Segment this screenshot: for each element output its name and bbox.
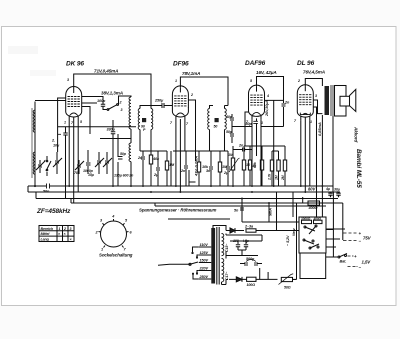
capacitor 250u bbox=[151, 99, 172, 109]
resistor 1M c bbox=[275, 151, 281, 186]
wire box to rails bbox=[326, 230, 333, 248]
capacitor 2n coupling bbox=[233, 144, 252, 152]
svg-text:15μ: 15μ bbox=[88, 173, 95, 177]
svg-text:2: 2 bbox=[63, 227, 66, 231]
wire column x118 bbox=[117, 134, 119, 186]
capacitor 500p pair bbox=[240, 257, 262, 266]
svg-text:71V,0,45mA: 71V,0,45mA bbox=[94, 69, 118, 74]
svg-text:3: 3 bbox=[121, 108, 123, 112]
speaker magnet bbox=[340, 96, 350, 106]
capacitor 50n series bbox=[43, 184, 50, 194]
wires T1 bbox=[140, 106, 151, 152]
svg-text:75V: 75V bbox=[363, 236, 372, 241]
svg-text:1,5V: 1,5V bbox=[362, 260, 372, 265]
wire row y151 mid bbox=[173, 150, 228, 152]
oscillator coil upper bbox=[129, 97, 131, 129]
socket pin numbers bbox=[95, 215, 133, 252]
terminal 75V plus bbox=[343, 231, 372, 241]
capacitor 1000p bbox=[83, 150, 95, 177]
wire column x290 bbox=[292, 192, 294, 217]
transformer taps bbox=[192, 243, 212, 279]
voltage selector arm bbox=[190, 262, 198, 264]
wire caps row bbox=[226, 241, 262, 259]
oscillator coil wires bbox=[119, 96, 132, 186]
svg-text:3: 3 bbox=[70, 227, 72, 231]
svg-text:Bambi ML-55: Bambi ML-55 bbox=[355, 149, 362, 188]
svg-text:100Ω: 100Ω bbox=[247, 283, 256, 287]
scan smudge bbox=[30, 70, 56, 76]
wire columns DAF96 bbox=[245, 100, 284, 186]
wire column x265 9mA bbox=[268, 203, 270, 222]
table frame bbox=[39, 226, 74, 242]
svg-text:40k: 40k bbox=[152, 157, 160, 161]
wire bottom row bbox=[222, 280, 229, 285]
potentiometer 50 Ohm bbox=[279, 274, 297, 290]
band switch S1 bbox=[107, 101, 122, 113]
tuning capacitor C1 bbox=[53, 152, 62, 174]
svg-text:3: 3 bbox=[315, 94, 317, 98]
capacitor 5n bbox=[234, 208, 244, 213]
svg-text:26V,30μA: 26V,30μA bbox=[265, 100, 269, 117]
svg-text:Bereich: Bereich bbox=[41, 227, 54, 231]
wire row grid DAF bbox=[272, 150, 279, 152]
capacitor 100HFu b bbox=[243, 239, 250, 250]
wire column x61 bbox=[58, 98, 66, 152]
svg-text:1: 1 bbox=[101, 248, 103, 252]
svg-text:330μ: 330μ bbox=[107, 128, 116, 132]
capacitor 2n b bbox=[180, 151, 188, 186]
capacitor 50p osc bbox=[118, 152, 127, 159]
antenna coil lower bbox=[33, 152, 35, 174]
wire column x70 bbox=[65, 127, 67, 199]
wire DK96 anode to IF1 bbox=[74, 74, 151, 106]
capacitor 2n grid bbox=[282, 101, 291, 127]
resistor 400 Ohm bbox=[303, 197, 326, 210]
lower wire box bbox=[300, 253, 326, 279]
tube DAF96 bbox=[249, 85, 265, 120]
trimmer capacitor C2 bbox=[95, 152, 104, 174]
resistors 1000 400 in box bbox=[301, 217, 322, 224]
bus line B1 bbox=[28, 185, 333, 187]
wire columns DL96 bbox=[301, 107, 317, 217]
svg-text:Bat.: Bat. bbox=[340, 260, 347, 264]
terminal minus a bbox=[343, 239, 362, 244]
resistor 120 Ohm bbox=[247, 268, 278, 287]
svg-text:Akkord: Akkord bbox=[354, 126, 359, 143]
wire column x72.5 bbox=[73, 117, 75, 203]
svg-text:2.: 2. bbox=[51, 139, 55, 143]
resistor 2,7k bbox=[268, 151, 274, 186]
wire row y146 bbox=[244, 146, 285, 151]
svg-text:220V: 220V bbox=[199, 267, 209, 271]
wire horizontal y134 bbox=[58, 127, 136, 139]
transformer secondary lower bbox=[222, 259, 224, 282]
bus line B5 bbox=[155, 203, 326, 206]
capacitor 4u electrolytic bbox=[325, 187, 333, 197]
svg-text:4: 4 bbox=[266, 94, 269, 98]
socket pin stubs bbox=[99, 219, 129, 248]
svg-text:50Ω: 50Ω bbox=[284, 286, 291, 290]
transformer secondary upper bbox=[222, 234, 224, 256]
svg-text:2n: 2n bbox=[180, 169, 186, 173]
wires T2 bbox=[210, 106, 229, 152]
battery switch Bat bbox=[326, 254, 371, 265]
wire transformer top bbox=[213, 226, 226, 231]
wire right rail x333 bbox=[332, 192, 334, 257]
capacitor 2u1 bbox=[223, 151, 230, 186]
diode D1 bbox=[226, 228, 244, 233]
svg-text:9mA: 9mA bbox=[269, 208, 273, 216]
wires from box to right bbox=[326, 229, 345, 247]
svg-text:C15−: C15− bbox=[225, 243, 229, 252]
trimmer capacitor C3 bbox=[103, 152, 112, 174]
svg-text:Mittel: Mittel bbox=[41, 232, 51, 236]
trimmer capacitor C-ant bbox=[36, 160, 46, 173]
svg-text:500p: 500p bbox=[246, 257, 255, 261]
wire DAF96 grid row bbox=[232, 126, 284, 128]
IF transformer T1 primary coil bbox=[138, 109, 140, 130]
svg-text:10μ: 10μ bbox=[53, 144, 60, 148]
output transformer core bbox=[331, 85, 333, 116]
resistor 10k bbox=[197, 151, 209, 186]
speaker frame bbox=[335, 86, 347, 117]
svg-text:C17−: C17− bbox=[225, 271, 229, 280]
wire column x113 bbox=[112, 134, 114, 186]
power transformer primary winding bbox=[211, 228, 215, 284]
fuse 2-3a bbox=[244, 225, 299, 233]
resistor 10k b bbox=[242, 146, 251, 186]
wire DK96 screen bbox=[82, 97, 103, 105]
wire right rail x343 bbox=[342, 203, 344, 240]
wire 2n to volume bbox=[233, 146, 252, 151]
svg-text:Spannungsmesser · Röhrenmessra: Spannungsmesser · Röhrenmessraum bbox=[139, 208, 217, 213]
svg-text:150V: 150V bbox=[200, 259, 209, 263]
svg-text:250μ: 250μ bbox=[154, 99, 164, 103]
svg-text:2n: 2n bbox=[284, 101, 290, 105]
svg-text:− 5,2V: − 5,2V bbox=[286, 235, 290, 246]
svg-text:30μ: 30μ bbox=[334, 188, 341, 192]
trimmer capacitor 70p bbox=[74, 160, 84, 175]
wire columns DF96 bbox=[171, 107, 196, 192]
capacitor 50p DAF bbox=[246, 121, 258, 126]
IF transformer T2 core bbox=[215, 118, 219, 122]
svg-text:1: 1 bbox=[64, 121, 66, 125]
svg-text:1: 1 bbox=[175, 79, 177, 83]
svg-text:16V, 42μA: 16V, 42μA bbox=[256, 70, 277, 75]
svg-text:125V: 125V bbox=[200, 251, 209, 255]
svg-text:Sockelschaltung: Sockelschaltung bbox=[99, 253, 133, 258]
svg-text:3: 3 bbox=[67, 78, 69, 82]
ferrite core line bbox=[31, 108, 33, 178]
wire DF96 anode to IF2 bbox=[180, 77, 228, 106]
svg-text:50p: 50p bbox=[120, 152, 127, 156]
wire column x195.5 bbox=[195, 120, 197, 161]
IF transformer T1 secondary coil bbox=[151, 109, 153, 130]
wire column x79 bbox=[77, 121, 79, 193]
wire DAF96 anode top bbox=[257, 77, 284, 103]
svg-text:DF96: DF96 bbox=[173, 61, 189, 68]
svg-text:110V: 110V bbox=[200, 243, 209, 247]
wire secondary top bbox=[226, 234, 262, 242]
selector pivot bbox=[189, 263, 191, 265]
wire from pot to box bbox=[293, 279, 297, 281]
mains switch box bbox=[299, 217, 326, 253]
svg-text:0,85mA: 0,85mA bbox=[317, 122, 322, 136]
resistor 1M a bbox=[165, 151, 175, 186]
capacitor 30u electrolytic bbox=[334, 188, 341, 198]
wire left edge verticals bbox=[28, 186, 71, 203]
svg-text:1M: 1M bbox=[275, 175, 279, 180]
svg-text:78V,1mA: 78V,1mA bbox=[182, 71, 200, 76]
svg-text:50: 50 bbox=[214, 125, 218, 129]
wire row y151 left bbox=[140, 150, 167, 152]
resistor 4k7 bbox=[248, 146, 257, 186]
svg-text:400Ω: 400Ω bbox=[313, 217, 322, 221]
capacitor 100HFu a bbox=[233, 239, 240, 250]
svg-text:Lang: Lang bbox=[41, 237, 50, 241]
socket circle bbox=[101, 221, 127, 247]
wire OT secondary down bbox=[322, 115, 333, 217]
resistor 1M b bbox=[218, 151, 228, 186]
diode D2 bbox=[229, 277, 247, 282]
output transformer winding bbox=[325, 86, 330, 115]
svg-text:1: 1 bbox=[59, 227, 61, 231]
antenna coil upper bbox=[33, 110, 35, 132]
bus line B4 bbox=[71, 202, 343, 204]
svg-text:38V,1,3mA: 38V,1,3mA bbox=[101, 91, 123, 96]
power transformer core bbox=[216, 227, 219, 285]
capacitor 3n bbox=[206, 151, 213, 186]
svg-text:2: 2 bbox=[190, 93, 193, 97]
oscillator coil lower bbox=[129, 143, 131, 162]
capacitor 40p bbox=[225, 114, 234, 125]
antenna rod wire bbox=[34, 102, 36, 187]
svg-text:DL 96: DL 96 bbox=[297, 60, 315, 67]
IF transformer T2 secondary coil bbox=[225, 109, 227, 130]
svg-text:2μ: 2μ bbox=[153, 173, 159, 177]
capacitor 350u bbox=[107, 120, 116, 134]
svg-text:2n: 2n bbox=[238, 144, 244, 148]
svg-text:100p: 100p bbox=[97, 99, 106, 103]
terminal minus b bbox=[348, 265, 362, 270]
svg-text:70: 70 bbox=[74, 171, 78, 175]
wire DF96 anode right bbox=[188, 100, 195, 120]
svg-text:1000Ω: 1000Ω bbox=[301, 217, 311, 221]
wire DL96 screen bbox=[313, 100, 322, 114]
resistor 60k bbox=[253, 146, 264, 186]
bus line B3 bbox=[36, 198, 338, 200]
component row: capacitor 2n bbox=[137, 151, 145, 186]
tube DF96 bbox=[172, 86, 188, 121]
svg-text:2μ: 2μ bbox=[223, 171, 229, 175]
resistor 2M bbox=[281, 151, 287, 186]
wire DL96 anode to OT bbox=[305, 79, 322, 87]
svg-text:250V: 250V bbox=[199, 275, 209, 279]
svg-text:DAF96: DAF96 bbox=[245, 60, 266, 67]
svg-text:2: 2 bbox=[297, 79, 300, 83]
tube DL96 bbox=[297, 85, 313, 121]
bus line B2 bbox=[28, 191, 340, 193]
scan smudge bbox=[8, 46, 38, 54]
svg-text:2M: 2M bbox=[281, 175, 285, 181]
divider line bbox=[168, 218, 230, 220]
IF transformer T1 core bbox=[142, 118, 146, 122]
svg-text:400Ω: 400Ω bbox=[308, 206, 318, 210]
svg-text:DK 96: DK 96 bbox=[66, 61, 84, 68]
capacitor 2u bbox=[153, 151, 160, 186]
volume potentiometer 1M bbox=[228, 146, 240, 186]
IF transformer T2 primary coil bbox=[208, 109, 210, 130]
capacitor 10u bbox=[51, 133, 68, 148]
wire column x242 bbox=[242, 192, 299, 231]
svg-text:Netz: Netz bbox=[292, 228, 296, 236]
svg-text:50p: 50p bbox=[226, 130, 233, 134]
wire column x296 bbox=[296, 203, 298, 280]
resistor 40k bbox=[149, 151, 160, 186]
wave switch bbox=[46, 156, 51, 176]
svg-text:50p: 50p bbox=[246, 122, 253, 126]
capacitor 100p bbox=[97, 99, 107, 110]
svg-text:ZF=458kHz: ZF=458kHz bbox=[36, 208, 71, 215]
svg-text:2–3a: 2–3a bbox=[244, 225, 253, 229]
switch contacts in box bbox=[303, 225, 319, 249]
svg-text:76V,4,5mA: 76V,4,5mA bbox=[303, 70, 325, 75]
junction dots bus bbox=[34, 185, 324, 204]
wire grid row bbox=[35, 101, 97, 135]
svg-text:2,7k: 2,7k bbox=[268, 173, 272, 181]
svg-text:40p: 40p bbox=[225, 115, 233, 119]
selector lead bbox=[158, 264, 190, 265]
tube DK96 bbox=[66, 87, 82, 121]
capacitor 50p2 bbox=[226, 125, 234, 143]
wire column x65 bbox=[68, 121, 70, 187]
svg-text:2n: 2n bbox=[137, 156, 143, 160]
speaker cone bbox=[350, 89, 356, 111]
